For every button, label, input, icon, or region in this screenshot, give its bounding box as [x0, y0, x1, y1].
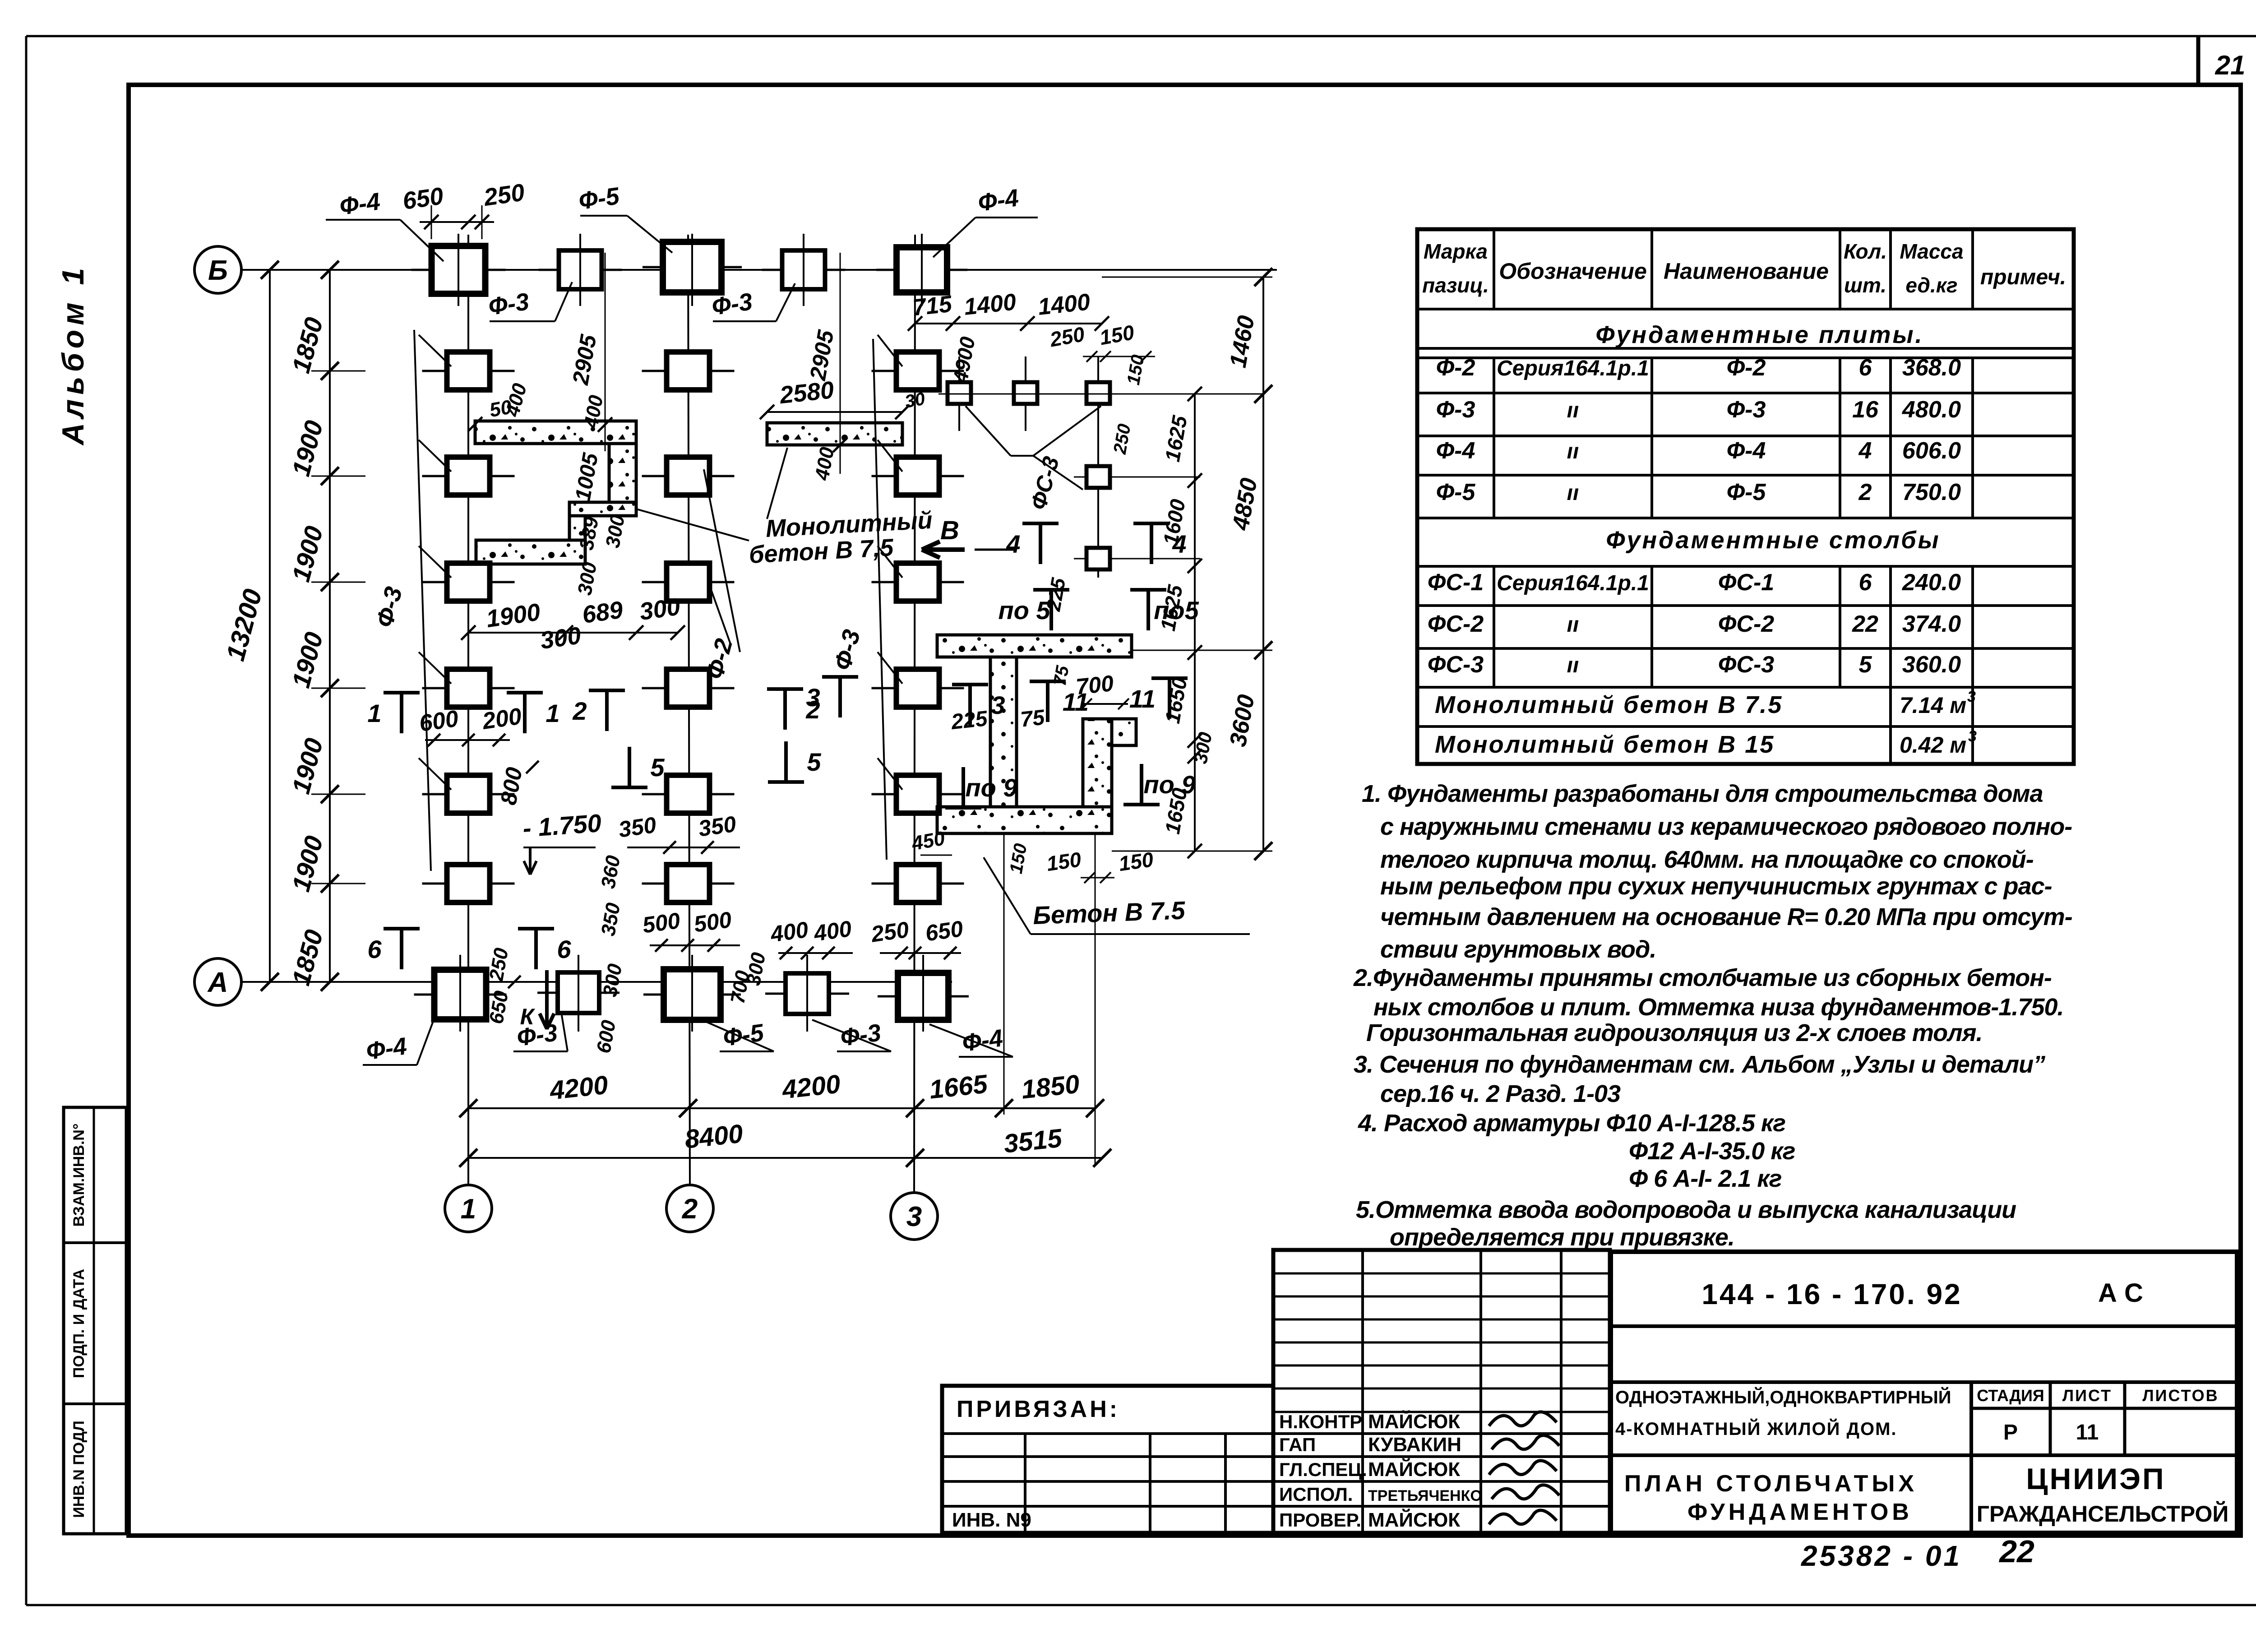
svg-text:Марка: Марка [1424, 240, 1488, 263]
svg-text:Фундаментные столбы: Фундаментные столбы [1606, 527, 1940, 554]
svg-text:250: 250 [482, 179, 527, 211]
svg-text:350: 350 [617, 812, 658, 842]
dim 650/250 above F-4 pad [420, 221, 494, 223]
svg-text:700: 700 [1075, 671, 1115, 699]
outer border bottom [26, 1604, 2256, 1606]
svg-text:1665: 1665 [928, 1069, 989, 1104]
svg-text:Ф-3: Ф-3 [710, 288, 754, 320]
pad F-3 at B right [762, 269, 846, 271]
section mark 11 right [1151, 676, 1188, 680]
svg-text:Серия164.1р.1: Серия164.1р.1 [1497, 571, 1649, 595]
section mark 5 left [611, 786, 647, 789]
pad F-3 at A [537, 992, 619, 994]
svg-text:ПОДП. И ДАТА: ПОДП. И ДАТА [70, 1269, 88, 1378]
svg-text:Альбом 1: Альбом 1 [56, 264, 90, 446]
section mark 6 right [518, 927, 554, 930]
pad F-5 at B/2 [643, 266, 742, 268]
svg-text:телого кирпича толщ. 640мм. на: телого кирпича толщ. 640мм. на площадке … [1380, 846, 2034, 873]
pad F-3 at B [539, 269, 622, 271]
section mark 1 right [507, 691, 543, 694]
section mark 5 right [768, 780, 804, 784]
svg-text:ГРАЖДАНСЕЛЬСТРОЙ: ГРАЖДАНСЕЛЬСТРОЙ [1977, 1501, 2229, 1527]
svg-text:шт.: шт. [1844, 273, 1886, 297]
svg-text:250: 250 [869, 917, 911, 947]
axis line 1 vertical [467, 235, 469, 1185]
monolithic concrete U-shape [475, 421, 636, 444]
sheet number box 21 [2196, 36, 2201, 85]
leader F-4 top left [326, 219, 400, 221]
sidebar stamp table [64, 1107, 126, 1534]
leader F-3 left [490, 320, 555, 322]
svg-text:650: 650 [401, 182, 445, 215]
connectors to right chains [1132, 650, 1272, 651]
svg-text:1: 1 [367, 699, 381, 727]
dim line 4200 4200 1665 1850 [468, 1107, 1095, 1109]
svg-text:Ф-4: Ф-4 [976, 184, 1021, 217]
svg-text:368.0: 368.0 [1902, 355, 1961, 381]
svg-text:Серия164.1р.1: Серия164.1р.1 [1497, 356, 1649, 380]
svg-text:ИСПОЛ.: ИСПОЛ. [1279, 1484, 1353, 1505]
svg-text:ОДНОЭТАЖНЫЙ,ОДНОКВАРТИРНЫЙ: ОДНОЭТАЖНЫЙ,ОДНОКВАРТИРНЫЙ [1615, 1387, 1951, 1407]
dim 600/200 [425, 739, 510, 741]
pad F-3 axis1 row1 [422, 370, 515, 372]
svg-text:ТРЕТЬЯЧЕНКО: ТРЕТЬЯЧЕНКО [1368, 1487, 1482, 1504]
svg-text:1400: 1400 [963, 289, 1017, 320]
section mark 3 left [822, 675, 858, 679]
pad F-4 at B/3 [876, 269, 967, 271]
svg-text:75: 75 [1050, 664, 1073, 687]
svg-text:ФС-2: ФС-2 [1428, 611, 1484, 637]
axis line B horizontal [241, 269, 1277, 271]
svg-text:ФС-1: ФС-1 [1718, 569, 1774, 596]
svg-text:0.42 м: 0.42 м [1900, 732, 1966, 758]
svg-text:1. Фундаменты разработаны для: 1. Фундаменты разработаны для строительс… [1362, 780, 2043, 807]
leader FS-3 [966, 406, 1011, 456]
svg-text:Ф-4: Ф-4 [365, 1032, 409, 1065]
right dim chain 1625/1600/1625/1650/300/1650 [1194, 394, 1196, 851]
svg-text:2580: 2580 [778, 376, 835, 409]
pad F-2 axis2 row3 [642, 581, 735, 583]
svg-text:с наружными стенами из керамич: с наружными стенами из керамического ряд… [1380, 813, 2072, 840]
svg-text:Ф-2: Ф-2 [1727, 355, 1766, 381]
svg-text:ЛИСТОВ: ЛИСТОВ [2142, 1386, 2219, 1405]
svg-text:ствии грунтовых вод.: ствии грунтовых вод. [1380, 936, 1656, 963]
axis line A horizontal [241, 981, 952, 983]
pad F-3 axis1 row4 [422, 687, 515, 689]
section mark 2 right [767, 687, 803, 691]
svg-text:400: 400 [768, 917, 810, 947]
svg-text:Горизонтальная гидроизоляция и: Горизонтальная гидроизоляция из 2-х слое… [1366, 1019, 1983, 1046]
svg-text:ıı: ıı [1567, 481, 1579, 505]
svg-text:360.0: 360.0 [1902, 652, 1961, 678]
svg-text:Ф-5: Ф-5 [1436, 479, 1476, 505]
svg-text:Ф-4: Ф-4 [961, 1024, 1005, 1057]
pad F-3 axis1 row5 [422, 793, 515, 796]
svg-text:11: 11 [2076, 1421, 2099, 1444]
pad F-3 axis3 row3 [872, 581, 964, 583]
leader monolithic concrete label [636, 509, 749, 541]
svg-text:2: 2 [682, 1194, 698, 1225]
svg-text:1: 1 [546, 699, 559, 727]
section mark 4 right [1133, 522, 1170, 525]
extension verticals below wall [1003, 833, 1005, 1115]
section mark 1 left [384, 691, 420, 694]
svg-text:25382 - 01: 25382 - 01 [1801, 1540, 1962, 1572]
svg-text:350: 350 [697, 811, 738, 842]
svg-text:ФС-3: ФС-3 [1428, 652, 1484, 678]
svg-text:6: 6 [557, 935, 571, 963]
section mark 2 left [589, 689, 625, 692]
dim chain 1850/1900 vertical [329, 270, 331, 982]
svg-text:6: 6 [1859, 569, 1872, 596]
leader diagonals axis2 F-2 [704, 469, 740, 652]
leader F-4 top right [975, 217, 1038, 218]
title block: main stamp [1611, 1252, 2237, 1533]
svg-text:4: 4 [1006, 530, 1020, 558]
pad F-3 axis3 row6 [872, 883, 964, 885]
svg-text:4: 4 [1858, 438, 1872, 464]
pad F-3 axis1 row6 [422, 883, 515, 885]
svg-text:Масса: Масса [1900, 240, 1963, 263]
dim 2905/400 line near axis3 [840, 253, 841, 474]
svg-text:8400: 8400 [683, 1119, 744, 1154]
svg-text:А С: А С [2098, 1278, 2143, 1308]
svg-text:МАЙСЮК: МАЙСЮК [1368, 1410, 1460, 1433]
svg-text:- 1.750: - 1.750 [522, 809, 602, 842]
svg-text:689: 689 [581, 596, 625, 629]
svg-text:Ф-3: Ф-3 [487, 288, 531, 320]
svg-text:3. Сечения по фундаментам см.: 3. Сечения по фундаментам см. Альбом „Уз… [1354, 1051, 2045, 1078]
right dim chain 1460/4850/3600 [1262, 277, 1264, 851]
svg-text:2: 2 [1858, 479, 1872, 505]
svg-text:МАЙСЮК: МАЙСЮК [1368, 1508, 1460, 1531]
svg-text:200: 200 [481, 703, 523, 735]
svg-text:3: 3 [1967, 688, 1976, 705]
svg-text:по 5: по 5 [998, 596, 1050, 625]
svg-text:Н.КОНТР: Н.КОНТР [1279, 1411, 1362, 1432]
section mark po9 left [945, 806, 981, 810]
outer border top [26, 35, 2256, 37]
svg-text:Ф-3: Ф-3 [1727, 397, 1766, 423]
svg-text:ıı: ıı [1567, 440, 1579, 463]
svg-text:400: 400 [812, 916, 853, 946]
svg-text:5: 5 [650, 753, 665, 782]
svg-text:Обозначение: Обозначение [1499, 259, 1647, 284]
pad F-3 at A right [765, 993, 849, 995]
axis circle A [194, 958, 241, 1005]
svg-text:Ф-5: Ф-5 [577, 182, 622, 215]
pad F-3 axis1 row2 [422, 475, 515, 477]
svg-text:22: 22 [1998, 1534, 2034, 1569]
svg-text:3515: 3515 [1002, 1123, 1063, 1158]
monolithic wall I-shape [937, 635, 1132, 657]
svg-text:ФУНДАМЕНТОВ: ФУНДАМЕНТОВ [1687, 1499, 1913, 1525]
svg-text:300: 300 [638, 593, 682, 625]
pad F-2 axis2 row1 [642, 370, 735, 372]
svg-text:четным давлением на основание: четным давлением на основание R= 0.20 МП… [1380, 903, 2072, 930]
pad F-2 axis2 row4 [642, 687, 735, 689]
svg-text:2.Фундаменты приняты столбчаты: 2.Фундаменты приняты столбчатые из сборн… [1353, 964, 2052, 991]
svg-text:Ф12 А-I-35.0 кг: Ф12 А-I-35.0 кг [1629, 1138, 1795, 1165]
svg-text:Ф-5: Ф-5 [1727, 479, 1766, 505]
svg-text:пазиц.: пазиц. [1422, 273, 1489, 297]
svg-text:4-КОМНАТНЫЙ ЖИЛОЙ ДОМ.: 4-КОМНАТНЫЙ ЖИЛОЙ ДОМ. [1615, 1418, 1897, 1439]
svg-text:Ф-2: Ф-2 [1436, 355, 1475, 381]
signatures [1489, 1412, 1557, 1426]
title block: approvals grid [1273, 1250, 1610, 1533]
svg-text:ПРИВЯЗАН:: ПРИВЯЗАН: [957, 1396, 1120, 1422]
svg-text:4. Расход арматуры Ф10 А-I-1: 4. Расход арматуры Ф10 А-I-128.5 кг [1358, 1110, 1785, 1137]
svg-text:16: 16 [1852, 397, 1879, 423]
svg-text:75: 75 [1019, 705, 1046, 731]
section mark po5 right [1130, 588, 1166, 592]
svg-text:5.Отметка ввода водопровода и: 5.Отметка ввода водопровода и выпуска ка… [1356, 1196, 2016, 1223]
section mark 4 left [1022, 522, 1059, 525]
svg-text:ГАП: ГАП [1279, 1434, 1316, 1455]
section mark po5 left [1033, 588, 1069, 592]
monolithic strip 2580 [767, 423, 902, 445]
svg-text:ед.кг: ед.кг [1905, 273, 1957, 297]
svg-text:ИНВ. N9: ИНВ. N9 [952, 1509, 1031, 1531]
svg-text:Ф-3: Ф-3 [515, 1019, 559, 1051]
pad F-4 at A/3 [878, 995, 969, 998]
svg-text:ПЛАН СТОЛБЧАТЫХ: ПЛАН СТОЛБЧАТЫХ [1624, 1471, 1918, 1497]
axis line 2 vertical [688, 235, 690, 1185]
pad F-2 axis2 row5 [642, 793, 735, 796]
svg-text:3: 3 [1968, 728, 1977, 745]
svg-text:5: 5 [1859, 652, 1872, 678]
svg-text:6: 6 [367, 935, 382, 963]
svg-text:3: 3 [906, 1201, 922, 1232]
svg-text:750.0: 750.0 [1902, 479, 1961, 505]
svg-text:21: 21 [2215, 50, 2246, 80]
section mark 6 left [384, 927, 420, 930]
pad F-3 axis3 row2 [872, 475, 964, 477]
dim line 8400 / 3515 [468, 1157, 1102, 1159]
pad F-3 axis1 row3 [422, 581, 515, 583]
svg-text:МАЙСЮК: МАЙСЮК [1368, 1458, 1460, 1481]
svg-text:ным рельефом при сухих непучин: ным рельефом при сухих непучинистых грун… [1380, 873, 2052, 900]
svg-text:Монолитный бетон В 15: Монолитный бетон В 15 [1435, 731, 1775, 758]
svg-text:ВЗАМ.ИНВ.N°: ВЗАМ.ИНВ.N° [70, 1124, 88, 1227]
outer border left [25, 36, 28, 1605]
svg-text:6: 6 [1859, 355, 1872, 381]
svg-text:500: 500 [692, 907, 733, 937]
svg-text:Ф 6 А-I- 2.1 кг: Ф 6 А-I- 2.1 кг [1629, 1165, 1782, 1192]
svg-text:30: 30 [903, 389, 926, 412]
dim 2905/400 line near axis1 [605, 253, 606, 451]
svg-text:ФС-3: ФС-3 [1718, 652, 1774, 678]
pad F-4 at B/1 [411, 269, 506, 271]
svg-text:1: 1 [461, 1194, 476, 1225]
svg-text:650: 650 [924, 916, 965, 946]
svg-text:715: 715 [911, 291, 953, 321]
leader F-5 top [580, 215, 627, 217]
stage table [2049, 1382, 2052, 1455]
svg-text:22: 22 [1852, 611, 1878, 637]
svg-text:480.0: 480.0 [1902, 397, 1961, 423]
svg-text:КУВАКИН: КУВАКИН [1368, 1434, 1461, 1456]
pad F-5 at A/2 [643, 994, 741, 996]
dim 2580 [767, 411, 902, 413]
title block: privyazan box [942, 1386, 1273, 1533]
svg-text:ıı: ıı [1567, 653, 1579, 677]
svg-text:2: 2 [572, 697, 587, 725]
svg-text:Ф-4: Ф-4 [1436, 438, 1475, 464]
svg-text:500: 500 [641, 908, 682, 938]
svg-text:ЛИСТ: ЛИСТ [2062, 1386, 2112, 1405]
svg-text:Монолитный бетон В 7.5: Монолитный бетон В 7.5 [1435, 691, 1783, 718]
dim line 715 1400 1400 [915, 323, 1102, 324]
svg-text:примеч.: примеч. [1980, 265, 2066, 289]
svg-text:А: А [207, 967, 228, 998]
svg-text:4200: 4200 [780, 1069, 841, 1105]
svg-text:ЦНИИЭП: ЦНИИЭП [2026, 1462, 2165, 1495]
svg-text:Ф-4: Ф-4 [1727, 438, 1766, 464]
leader F-3 right [713, 320, 776, 322]
dim line 1900 689 300 [468, 632, 678, 634]
svg-text:7.14 м: 7.14 м [1900, 693, 1966, 718]
svg-text:11: 11 [1129, 685, 1156, 713]
FS-3 pads column [1097, 431, 1099, 578]
svg-text:ных столбов и плит. Отметка н: ных столбов и плит. Отметка низа фундаме… [1373, 994, 2064, 1021]
section mark po9 right [1123, 803, 1160, 806]
svg-text:300: 300 [539, 622, 583, 654]
leader diagonals axis1 F-3 [414, 330, 431, 871]
svg-text:Ф-3: Ф-3 [1436, 397, 1475, 423]
axis circle 1 [445, 1185, 492, 1232]
svg-text:Кол.: Кол. [1844, 240, 1887, 263]
svg-text:1400: 1400 [1037, 289, 1091, 320]
svg-text:Наименование: Наименование [1664, 259, 1829, 284]
pad F-2 axis2 row2 [642, 475, 735, 477]
svg-text:ФС-2: ФС-2 [1718, 611, 1774, 637]
pad F-3 axis3 row4 [872, 687, 964, 689]
svg-text:225: 225 [950, 707, 989, 734]
svg-text:600: 600 [418, 705, 460, 737]
svg-text:ıı: ıı [1567, 398, 1579, 422]
svg-text:Ф-5: Ф-5 [721, 1019, 766, 1051]
axis circle 3 [891, 1193, 938, 1240]
svg-text:ıı: ıı [1567, 613, 1579, 637]
svg-text:3: 3 [806, 683, 820, 712]
svg-text:сер.16 ч. 2 Разд. 1-03: сер.16 ч. 2 Разд. 1-03 [1380, 1080, 1621, 1107]
axis circle 2 [666, 1185, 713, 1232]
svg-text:Б: Б [208, 255, 228, 286]
svg-text:240.0: 240.0 [1902, 569, 1961, 596]
svg-text:В: В [940, 516, 959, 545]
FS-3 pads row [958, 356, 960, 431]
pad F-3 axis3 row1 [872, 370, 964, 372]
svg-text:144 - 16 - 170. 92: 144 - 16 - 170. 92 [1701, 1278, 1962, 1310]
svg-text:ГЛ.СПЕЦ.: ГЛ.СПЕЦ. [1279, 1459, 1367, 1480]
svg-text:Фундаментные плиты.: Фундаментные плиты. [1595, 321, 1923, 348]
svg-text:Ф-3: Ф-3 [839, 1019, 883, 1051]
svg-text:Бетон В 7.5: Бетон В 7.5 [1032, 896, 1186, 930]
svg-text:СТАДИЯ: СТАДИЯ [1977, 1386, 2044, 1405]
pad F-3 axis3 row5 [872, 793, 964, 796]
svg-text:5: 5 [807, 748, 821, 776]
svg-text:ПРОВЕР.: ПРОВЕР. [1279, 1509, 1361, 1531]
svg-text:374.0: 374.0 [1902, 611, 1961, 637]
axis line 3 vertical [914, 235, 915, 1193]
svg-text:4200: 4200 [548, 1070, 609, 1106]
specification table grid [1417, 229, 2074, 764]
svg-text:Р: Р [2003, 1421, 2018, 1444]
svg-text:150: 150 [1045, 847, 1083, 875]
axis circle B [194, 246, 241, 293]
svg-text:1850: 1850 [1020, 1069, 1081, 1105]
pad F-2 axis2 row6 [642, 883, 735, 885]
horizontal line through FS pads [938, 393, 1263, 395]
section mark 11 left [1030, 680, 1066, 683]
dim line 13200 vertical [269, 270, 271, 982]
svg-text:Ф-4: Ф-4 [338, 188, 382, 220]
pad F-4 at A/1 [414, 994, 507, 996]
section mark 3 right [952, 683, 988, 686]
svg-text:определяется при привязке.: определяется при привязке. [1390, 1224, 1734, 1251]
svg-text:606.0: 606.0 [1902, 438, 1961, 464]
leader diagonals axis3 F-3 [873, 339, 887, 860]
svg-text:ФС-1: ФС-1 [1428, 569, 1484, 596]
svg-text:ИНВ.N ПОДЛ: ИНВ.N ПОДЛ [70, 1421, 88, 1518]
